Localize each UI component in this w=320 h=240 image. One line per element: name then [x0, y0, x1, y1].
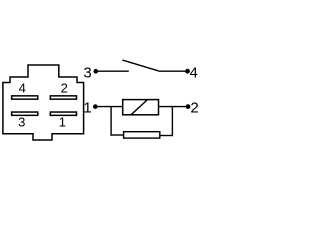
wire from resistor right — [160, 135, 173, 137]
node dot terminal 4 — [185, 69, 190, 74]
relay socket outline — [3, 65, 84, 140]
svg-text:2: 2 — [61, 81, 68, 96]
resistor box — [124, 132, 160, 138]
svg-text:1: 1 — [83, 99, 91, 116]
relay coil box — [123, 100, 159, 115]
wire to terminal 4 — [159, 70, 188, 72]
terminal slot 2 — [50, 96, 76, 99]
terminal slot 4 — [12, 96, 38, 99]
terminal slot 1 — [50, 112, 76, 115]
node dot terminal 2 — [186, 104, 191, 109]
terminal slot 3 — [12, 112, 38, 115]
wire to resistor left — [110, 134, 123, 136]
svg-text:1: 1 — [59, 115, 66, 130]
svg-text:3: 3 — [83, 65, 91, 82]
resistor branch right vertical wire — [171, 107, 173, 137]
wire coil to terminal 2 — [159, 106, 189, 108]
node dot terminal 1 — [93, 104, 98, 109]
coil diagonal — [131, 100, 148, 115]
wire terminal 1 to coil — [95, 106, 122, 108]
node dot terminal 3 — [94, 69, 99, 74]
wire from terminal 3 — [96, 70, 129, 72]
switch blade (open contact) — [122, 60, 158, 71]
svg-text:3: 3 — [18, 115, 25, 130]
svg-text:4: 4 — [19, 81, 26, 96]
resistor branch left vertical wire — [110, 107, 112, 136]
svg-text:2: 2 — [190, 99, 198, 116]
svg-text:4: 4 — [190, 65, 198, 82]
